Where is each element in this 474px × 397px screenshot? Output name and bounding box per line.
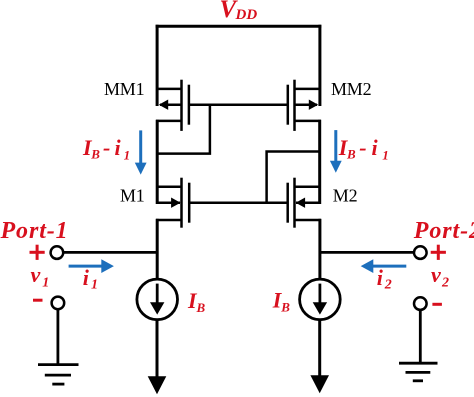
minus sign port 1 bbox=[33, 299, 43, 302]
wire: M1 source down to current source bbox=[156, 219, 159, 280]
port-2 terminal circle (+) bbox=[414, 246, 427, 259]
label VDD bbox=[220, 0, 258, 23]
port-2 terminal circle (-) bbox=[414, 297, 427, 310]
svg-text:i: i bbox=[377, 265, 384, 290]
svg-text:v: v bbox=[431, 262, 441, 287]
wire + arrow: right tail below current source bbox=[310, 320, 329, 394]
svg-text:M1: M1 bbox=[120, 186, 145, 206]
svg-text:1: 1 bbox=[124, 147, 131, 162]
svg-text:i: i bbox=[372, 135, 379, 160]
label v1 bbox=[31, 262, 50, 291]
svg-text:DD: DD bbox=[235, 7, 258, 23]
svg-text:M2: M2 bbox=[333, 186, 358, 206]
wire: port-1 to M1 source node bbox=[64, 251, 158, 254]
svg-text:B: B bbox=[90, 147, 100, 162]
svg-text:2: 2 bbox=[441, 276, 449, 291]
svg-text:v: v bbox=[31, 262, 41, 287]
port-1 terminal circle (+) bbox=[51, 246, 64, 259]
svg-text:1: 1 bbox=[91, 277, 98, 292]
label IB (left) bbox=[187, 288, 206, 315]
label v2 bbox=[431, 262, 449, 291]
svg-text:-: - bbox=[359, 135, 366, 160]
port-1 terminal circle (-) bbox=[52, 297, 65, 310]
svg-text:MM2: MM2 bbox=[331, 79, 371, 99]
transistor MM2 (PMOS right) bbox=[288, 80, 321, 131]
svg-text:1: 1 bbox=[42, 276, 49, 291]
svg-text:B: B bbox=[196, 300, 206, 315]
label i1 (red) bbox=[83, 265, 98, 292]
svg-text:1: 1 bbox=[382, 147, 389, 162]
blue arrow: IB-i1 down (left) bbox=[135, 130, 147, 174]
wire: rail down to MM1 source/body bbox=[156, 25, 159, 106]
ground (left) bbox=[38, 365, 79, 385]
svg-text:-: - bbox=[103, 135, 110, 160]
blue arrow: i2 current (left-pointing) bbox=[361, 259, 407, 273]
wire: port-1 minus to ground bbox=[57, 309, 60, 364]
svg-text:MM1: MM1 bbox=[104, 79, 144, 99]
current source IB (right) bbox=[300, 279, 341, 320]
wire: gate line M1-M2 bbox=[189, 201, 288, 204]
svg-text:B: B bbox=[346, 147, 356, 162]
wire + arrow: left tail below current source bbox=[148, 320, 167, 395]
svg-text:i: i bbox=[83, 265, 90, 290]
wire: M2 source down to current source bbox=[318, 219, 321, 280]
svg-text:Port-1: Port-1 bbox=[0, 218, 69, 244]
wire: M gates up to right drain node bbox=[267, 152, 320, 203]
current source IB (left) bbox=[137, 279, 178, 320]
transistor MM1 (PMOS left) bbox=[156, 80, 189, 131]
wire: port-2 minus to ground bbox=[419, 310, 422, 362]
ground (right) bbox=[399, 363, 438, 381]
svg-text:i: i bbox=[115, 135, 122, 160]
transistor M2 (NMOS right) bbox=[288, 178, 321, 228]
blue arrow: i1 current (right-pointing) bbox=[69, 259, 114, 273]
wire: gate line MM1-MM2 bbox=[189, 103, 288, 106]
minus sign port 2 bbox=[432, 303, 442, 306]
wire: MM2 drain down to M2 drain bbox=[318, 120, 321, 204]
wire: MM1 drain down to M1 drain bbox=[156, 120, 159, 204]
svg-text:B: B bbox=[280, 299, 290, 314]
wire: port-2 to M2 source node bbox=[320, 251, 414, 254]
label IB (right) bbox=[272, 288, 291, 315]
plus sign port 2 bbox=[431, 245, 446, 260]
transistor M1 (NMOS left) bbox=[156, 178, 189, 228]
VDD power rail bbox=[156, 25, 322, 28]
label i2 (red) bbox=[377, 265, 392, 293]
wire: MM gates down to left drain node bbox=[157, 105, 210, 154]
svg-text:Port-2: Port-2 bbox=[413, 218, 474, 244]
blue arrow: IB-i1 down (right) bbox=[330, 130, 342, 173]
svg-text:2: 2 bbox=[384, 278, 392, 293]
plus sign port 1 bbox=[30, 245, 45, 260]
current label IB - i1 (left) bbox=[82, 135, 130, 162]
current label IB - i1 (right) bbox=[338, 135, 389, 162]
wire: rail down to MM2 source/body bbox=[318, 25, 321, 106]
